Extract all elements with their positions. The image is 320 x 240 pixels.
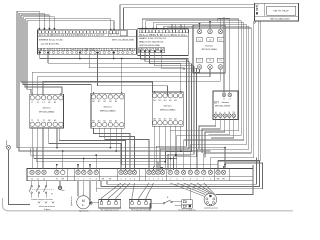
svg-text:Двигатель: Двигатель	[79, 211, 88, 212]
svg-text:3RT1016-2BB44: 3RT1016-2BB44	[39, 111, 55, 113]
svg-text:L3: L3	[43, 179, 45, 181]
svg-text:3 фазы: 3 фазы	[44, 208, 51, 211]
svg-text:L2: L2	[37, 102, 39, 104]
svg-text:A2: A2	[115, 119, 117, 122]
svg-text:A1: A1	[54, 101, 56, 104]
svg-text:Двигатель: Двигатель	[71, 196, 73, 205]
svg-text:Siemens: Siemens	[104, 107, 112, 109]
svg-text:3: 3	[183, 179, 184, 181]
svg-text:6AV6 642-0AA11-0AX1: 6AV6 642-0AA11-0AX1	[270, 18, 290, 21]
svg-text:A2: A2	[174, 117, 176, 120]
svg-text:На задатчик (тип 1): На задатчик (тип 1)	[101, 210, 119, 212]
svg-text:М: М	[82, 199, 85, 203]
svg-text:Кнопка аварийная: Кнопка аварийная	[179, 209, 196, 212]
svg-text:6ES7 214-1BD23-0XB0: 6ES7 214-1BD23-0XB0	[112, 39, 135, 41]
svg-text:ANALOG 4IV, 1AQ EM 235: ANALOG 4IV, 1AQ EM 235	[139, 41, 164, 44]
svg-text:2: 2	[125, 179, 126, 181]
svg-text:3RV1011-1KA00: 3RV1011-1KA00	[201, 48, 217, 51]
svg-text:1: 1	[77, 179, 78, 181]
svg-text:5: 5	[196, 179, 197, 181]
svg-text:3: 3	[89, 179, 90, 181]
svg-text:На задатчик (тип 2): На задатчик (тип 2)	[131, 210, 149, 212]
svg-text:1M 1L 0.0 0.1 0.2 0.3 2L 0.4 0: 1M 1L 0.0 0.1 0.2 0.3 2L 0.4 0.5 0.6 2M …	[38, 49, 136, 52]
svg-text:7: 7	[210, 179, 211, 181]
svg-text:RA A+ A- RB B+ B- RC C+ C- RD: RA A+ A- RB B+ B- RC C+ C- RD D+ D- M L+	[139, 34, 187, 37]
svg-text:T1: T1	[31, 120, 33, 122]
svg-text:6ES7235-0KD22-0XA0: 6ES7235-0KD22-0XA0	[139, 44, 160, 47]
svg-text:4: 4	[162, 179, 163, 181]
svg-text:SIEMENS Simatic S7-200: SIEMENS Simatic S7-200	[39, 38, 64, 41]
svg-text:цпу 224 AC/DC/Rly: цпу 224 AC/DC/Rly	[41, 42, 60, 45]
svg-text:L+: L+	[113, 35, 115, 37]
svg-text:L1: L1	[31, 179, 33, 181]
svg-text:P1: P1	[51, 194, 53, 196]
svg-text:4: 4	[96, 179, 97, 181]
svg-text:HMI TP177A-DP: HMI TP177A-DP	[273, 9, 289, 12]
svg-text:1: 1	[148, 179, 149, 181]
svg-text:4: 4	[190, 179, 191, 181]
svg-text:A1: A1	[174, 99, 176, 102]
svg-text:Siemens: Siemens	[164, 105, 172, 107]
svg-text:Кнопка запуска системы: Кнопка запуска системы	[31, 199, 53, 201]
svg-text:3RH1122-2BB40: 3RH1122-2BB40	[100, 111, 116, 113]
svg-text:БП: БП	[214, 100, 219, 104]
svg-text:2: 2	[83, 179, 84, 181]
svg-text:6EP1332-1SH43: 6EP1332-1SH43	[215, 106, 231, 108]
svg-text:3: 3	[157, 179, 158, 181]
svg-text:Источник питания: Источник питания	[39, 206, 55, 208]
svg-text:L1: L1	[31, 102, 33, 104]
svg-text:T2: T2	[37, 120, 39, 122]
svg-text:Вкл: Вкл	[61, 190, 64, 192]
svg-text:1: 1	[120, 179, 121, 181]
svg-text:L1: L1	[229, 98, 231, 100]
svg-text:Siemens: Siemens	[43, 107, 51, 109]
svg-text:Siemens: Siemens	[205, 45, 213, 47]
svg-text:L2: L2	[37, 179, 39, 181]
svg-text:4: 4	[134, 179, 135, 181]
svg-text:2: 2	[176, 179, 177, 181]
svg-text:3RH1122-2BB40: 3RH1122-2BB40	[160, 109, 176, 111]
svg-text:Siemens: Siemens	[222, 102, 230, 104]
svg-text:SIMATIC S-200, CPU 22x/ HY: SIMATIC S-200, CPU 22x/ HY	[139, 37, 167, 40]
svg-text:L3: L3	[43, 102, 45, 104]
svg-text:3: 3	[129, 179, 130, 181]
svg-text:разъём датчик: разъём датчик	[204, 208, 218, 210]
svg-text:6: 6	[203, 179, 204, 181]
svg-text:1: 1	[170, 179, 171, 181]
svg-text:1L N L+ M 1M 0.0 0.1 0.2 0.3 0: 1L N L+ M 1M 0.0 0.1 0.2 0.3 0.4 0.5 2M …	[39, 34, 106, 37]
svg-text:T3: T3	[43, 120, 45, 122]
svg-text:A2: A2	[54, 119, 56, 122]
svg-text:A1: A1	[115, 100, 117, 103]
svg-text:2: 2	[153, 179, 154, 181]
